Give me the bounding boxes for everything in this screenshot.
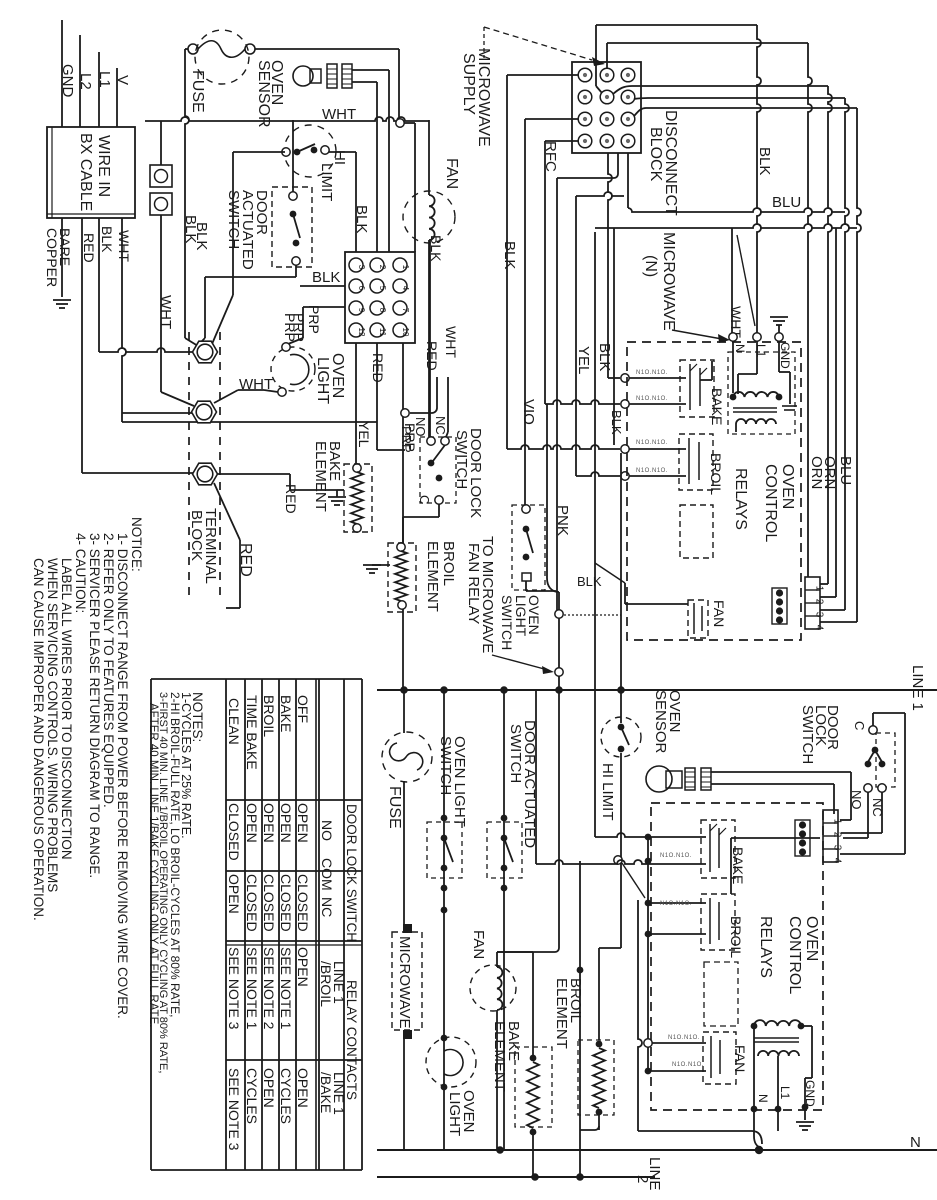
- svg-text:GND: GND: [803, 1080, 817, 1107]
- svg-text:LINE 1: LINE 1: [909, 665, 926, 711]
- svg-text:3: 3: [357, 265, 366, 270]
- svg-text:DOOR LOCK SWITCH: DOOR LOCK SWITCH: [344, 804, 359, 942]
- svg-text:4: 4: [814, 625, 825, 631]
- svg-text:BLK: BLK: [501, 241, 518, 269]
- svg-text:PRP: PRP: [399, 426, 414, 453]
- svg-text:SENSOR: SENSOR: [652, 690, 669, 754]
- svg-text:CAN CAUSE IMPROPER AND DANGERO: CAN CAUSE IMPROPER AND DANGEROUS OPERATI…: [31, 558, 46, 921]
- svg-text:WHT: WHT: [239, 376, 273, 393]
- svg-text:LIMIT: LIMIT: [318, 163, 335, 201]
- svg-text:OPEN: OPEN: [278, 803, 294, 843]
- svg-text:WIRE IN: WIRE IN: [95, 135, 112, 197]
- svg-text:SWITCH: SWITCH: [507, 724, 524, 783]
- svg-text:1: 1: [814, 586, 825, 592]
- svg-text:SEE NOTE 2: SEE NOTE 2: [261, 947, 277, 1030]
- svg-text:12: 12: [357, 328, 366, 337]
- svg-text:N1O.N1O.: N1O.N1O.: [636, 370, 668, 376]
- svg-text:OPEN: OPEN: [295, 803, 311, 843]
- svg-text:FUSE: FUSE: [189, 70, 206, 113]
- svg-text:VIO: VIO: [520, 399, 537, 425]
- svg-text:RFC: RFC: [542, 141, 559, 172]
- svg-text:N1O.N1O.: N1O.N1O.: [672, 1062, 704, 1068]
- svg-text:L2: L2: [77, 73, 94, 90]
- svg-text:8: 8: [378, 308, 387, 313]
- svg-text:SEE NOTE 3: SEE NOTE 3: [226, 1068, 242, 1151]
- svg-text:FAN: FAN: [470, 930, 487, 959]
- svg-text:SWITCH: SWITCH: [225, 190, 242, 249]
- svg-text:WHT: WHT: [443, 326, 459, 358]
- svg-text:N1O.N1O.: N1O.N1O.: [660, 901, 692, 907]
- svg-text:OPEN: OPEN: [244, 803, 260, 843]
- svg-text:3: 3: [814, 612, 825, 618]
- svg-text:YEL: YEL: [356, 421, 372, 448]
- svg-text:OFF: OFF: [295, 695, 311, 723]
- svg-text:OPEN: OPEN: [295, 1068, 311, 1108]
- svg-text:OVEN: OVEN: [779, 464, 796, 509]
- svg-text:FAN: FAN: [732, 1045, 748, 1072]
- svg-text:FUSE: FUSE: [386, 786, 403, 829]
- svg-text:/BAKE: /BAKE: [318, 1072, 334, 1113]
- svg-text:NC: NC: [433, 416, 448, 435]
- svg-text:2: 2: [814, 599, 825, 605]
- svg-text:BLK: BLK: [609, 410, 624, 435]
- svg-text:BLK: BLK: [312, 269, 340, 286]
- svg-text:SENSOR: SENSOR: [255, 60, 272, 128]
- svg-text:CLOSED: CLOSED: [244, 874, 260, 932]
- svg-text:NC: NC: [319, 897, 335, 917]
- svg-text:BLU: BLU: [772, 194, 801, 211]
- svg-text:CONTROL: CONTROL: [786, 916, 803, 994]
- svg-text:OPEN: OPEN: [295, 947, 311, 987]
- svg-text:BLK: BLK: [428, 235, 444, 262]
- svg-text:OPEN: OPEN: [261, 1068, 277, 1108]
- svg-text:N1O.N1O.: N1O.N1O.: [660, 853, 692, 859]
- svg-text:BAKE: BAKE: [709, 388, 725, 425]
- svg-text:2: 2: [832, 832, 843, 838]
- svg-text:CLOSED: CLOSED: [278, 874, 294, 932]
- svg-text:BLU: BLU: [837, 456, 854, 485]
- svg-text:3: 3: [832, 845, 843, 851]
- svg-text:2: 2: [634, 1175, 651, 1183]
- svg-text:OPEN: OPEN: [261, 803, 277, 843]
- svg-text:9: 9: [357, 308, 366, 313]
- svg-text:PRP: PRP: [306, 305, 322, 334]
- svg-text:V: V: [114, 75, 131, 85]
- svg-text:BLK: BLK: [756, 147, 773, 175]
- svg-text:FAN RELAY: FAN RELAY: [465, 543, 482, 624]
- svg-text:N1O.N1O.: N1O.N1O.: [636, 468, 668, 474]
- svg-text:ELEMENT: ELEMENT: [553, 978, 570, 1049]
- svg-text:LIGHT: LIGHT: [446, 1092, 463, 1136]
- svg-text:BLK: BLK: [193, 222, 210, 250]
- svg-text:CONTROL: CONTROL: [762, 464, 779, 542]
- svg-text:L1: L1: [96, 71, 113, 88]
- svg-text:ELEMENT: ELEMENT: [312, 441, 329, 512]
- svg-text:SUPPLY: SUPPLY: [460, 53, 477, 115]
- svg-text:RED: RED: [424, 341, 440, 371]
- svg-text:RED: RED: [283, 484, 299, 514]
- svg-text:OPEN: OPEN: [226, 874, 242, 914]
- svg-text:RELAYS: RELAYS: [732, 468, 749, 530]
- svg-text:ELEMENT: ELEMENT: [424, 541, 441, 612]
- svg-text:BX CABLE: BX CABLE: [77, 133, 94, 211]
- svg-text:BLOCK: BLOCK: [647, 127, 664, 182]
- svg-text:BAKE: BAKE: [730, 847, 746, 884]
- svg-text:11: 11: [378, 328, 387, 337]
- svg-text:4- CAUTION:: 4- CAUTION:: [73, 533, 88, 613]
- svg-text:PNK: PNK: [554, 505, 571, 536]
- svg-text:N1O.N1O.: N1O.N1O.: [668, 1035, 700, 1041]
- svg-text:4: 4: [401, 286, 410, 291]
- svg-text:LINE: LINE: [646, 1157, 663, 1190]
- svg-text:BROIL: BROIL: [708, 453, 724, 495]
- svg-text:BLK: BLK: [99, 226, 115, 253]
- svg-text:NO: NO: [413, 417, 428, 437]
- svg-text:YEL: YEL: [575, 346, 592, 374]
- svg-text:N1O.N1O.: N1O.N1O.: [636, 396, 668, 402]
- svg-text:NO: NO: [319, 820, 335, 841]
- svg-text:N: N: [756, 1094, 770, 1103]
- svg-text:CLOSED: CLOSED: [226, 803, 242, 861]
- svg-text:BROIL: BROIL: [728, 916, 744, 958]
- svg-text:1: 1: [832, 819, 843, 825]
- svg-text:RED: RED: [81, 233, 97, 263]
- svg-text:WHT: WHT: [157, 295, 174, 329]
- svg-text:SEE NOTE 1: SEE NOTE 1: [278, 947, 294, 1030]
- svg-text:BLK: BLK: [577, 574, 602, 589]
- svg-text:SWITCH: SWITCH: [799, 705, 816, 764]
- svg-text:RELAYS: RELAYS: [757, 916, 774, 978]
- svg-text:TIME BAKE: TIME BAKE: [244, 695, 260, 770]
- svg-text:LIGHT: LIGHT: [314, 357, 331, 404]
- svg-text:BLOCK: BLOCK: [188, 510, 205, 561]
- svg-text:L1: L1: [778, 1086, 792, 1100]
- svg-text:CLOSED: CLOSED: [261, 874, 277, 932]
- svg-text:SWITCH: SWITCH: [499, 595, 515, 650]
- svg-text:7: 7: [401, 308, 410, 313]
- svg-text:FAN: FAN: [443, 158, 460, 189]
- svg-text:AFTER 40 MIN. LINE 1/BAKE CYCL: AFTER 40 MIN. LINE 1/BAKE CYCLING ONLY A…: [147, 703, 159, 1027]
- svg-text:SEE NOTE 1: SEE NOTE 1: [244, 947, 260, 1030]
- svg-text:BROIL: BROIL: [440, 541, 457, 586]
- svg-text:CYCLES: CYCLES: [278, 1068, 294, 1124]
- svg-text:BLK: BLK: [353, 205, 370, 233]
- svg-text:HI LIMIT: HI LIMIT: [599, 763, 616, 821]
- svg-text:SWITCH: SWITCH: [453, 430, 470, 489]
- svg-text:ELEMENT: ELEMENT: [491, 1021, 508, 1092]
- svg-text:N1O.N1O.: N1O.N1O.: [636, 440, 668, 446]
- svg-text:4: 4: [832, 858, 843, 864]
- svg-text:BLK: BLK: [596, 343, 613, 371]
- svg-text:(N): (N): [642, 255, 659, 277]
- svg-text:RED: RED: [370, 353, 386, 383]
- svg-text:2: 2: [378, 265, 387, 270]
- svg-text:BAKE: BAKE: [278, 695, 294, 732]
- svg-text:NOTICE:: NOTICE:: [129, 517, 144, 572]
- svg-text:MICROWAVE: MICROWAVE: [660, 232, 677, 331]
- svg-text:5: 5: [378, 286, 387, 291]
- svg-text:RED: RED: [237, 543, 254, 577]
- svg-text:COM: COM: [319, 858, 335, 891]
- svg-text:10: 10: [401, 328, 410, 337]
- svg-text:LABEL ALL WIRES PRIOR TO DISCO: LABEL ALL WIRES PRIOR TO DISCONNECTION: [59, 558, 74, 860]
- svg-text:1: 1: [401, 265, 410, 270]
- svg-text:FAN: FAN: [711, 600, 727, 627]
- svg-text:WHEN SERVICING CONTROLS. WIRIN: WHEN SERVICING CONTROLS. WIRING PROBLEMS: [45, 558, 60, 892]
- svg-text:2- REFER ONLY TO FEATURES EQUI: 2- REFER ONLY TO FEATURES EQUIPPED.: [101, 533, 116, 808]
- svg-text:6: 6: [357, 286, 366, 291]
- svg-text:MICROWAVE: MICROWAVE: [396, 936, 413, 1029]
- svg-text:SWITCH: SWITCH: [437, 736, 454, 795]
- svg-text:N: N: [910, 1134, 921, 1151]
- svg-text:SEE NOTE 3: SEE NOTE 3: [226, 947, 242, 1030]
- svg-text:COPPER: COPPER: [44, 228, 60, 287]
- svg-text:1- DISCONNECT RANGE FROM POWER: 1- DISCONNECT RANGE FROM POWER BEFORE RE…: [115, 533, 130, 1019]
- svg-text:WHT: WHT: [116, 230, 132, 262]
- svg-text:CYCLES: CYCLES: [244, 1068, 260, 1124]
- svg-text:GND: GND: [59, 64, 76, 98]
- svg-text:C: C: [852, 721, 867, 730]
- svg-text:3- SERVICER PLEASE RETURN DIAG: 3- SERVICER PLEASE RETURN DIAGRAM TO RAN…: [87, 533, 102, 878]
- svg-text:/BROIL: /BROIL: [318, 961, 334, 1007]
- svg-text:GND: GND: [778, 342, 792, 369]
- svg-text:2-HI BROIL-FULL RATE, LO BROIL: 2-HI BROIL-FULL RATE, LO BROIL-CYCLES AT…: [168, 692, 182, 1017]
- svg-text:OVEN: OVEN: [803, 916, 820, 961]
- svg-text:C: C: [417, 495, 432, 504]
- svg-text:CLOSED: CLOSED: [295, 874, 311, 932]
- svg-text:PRP: PRP: [291, 313, 307, 342]
- svg-text:CLEAN: CLEAN: [226, 698, 242, 745]
- svg-text:WHT: WHT: [322, 106, 356, 123]
- svg-text:BROIL: BROIL: [261, 695, 277, 737]
